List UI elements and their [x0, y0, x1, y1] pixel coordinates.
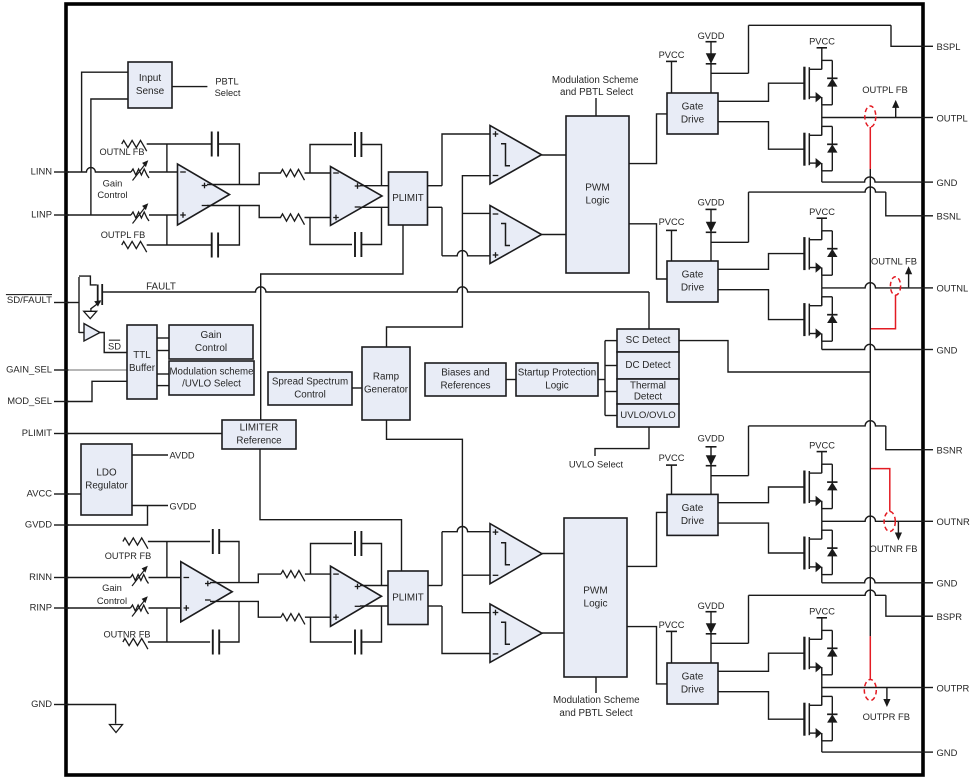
svg-text:RINN: RINN — [29, 571, 52, 582]
wire OUTNL output node line (hop over sense vertical) — [822, 283, 920, 288]
svg-text:GVDD: GVDD — [698, 434, 725, 444]
wire GAIN_SEL input (grey) — [68, 369, 127, 371]
wire 2nd stage lower feedback (R) — [311, 617, 353, 642]
svg-text:Control: Control — [294, 389, 326, 400]
wire OUTPL FB feedback line — [147, 244, 212, 246]
wire PWM output to gate drive (OUTPL) — [629, 114, 667, 164]
capacitor feedback top (R) — [212, 529, 214, 554]
wire ramp stub comparator3 minus — [462, 574, 490, 576]
svg-text:PVCC: PVCC — [659, 453, 685, 463]
wire opamp upper output to 2nd stage — [207, 173, 281, 185]
wire PWM output to gate drive (OUTPR) — [627, 627, 667, 684]
svg-text:DC Detect: DC Detect — [625, 360, 670, 371]
wire high-side source to output node (OUTPR) — [821, 667, 823, 687]
svg-text:GVDD: GVDD — [25, 519, 52, 530]
svg-text:and PBTL Select: and PBTL Select — [559, 708, 632, 719]
resistor OUTNR FB — [123, 638, 148, 649]
wire PWM output to gate drive (OUTNR) — [627, 512, 667, 566]
svg-text:OUTPR FB: OUTPR FB — [863, 711, 910, 722]
wire 2nd opamp outputs to PLIMIT — [360, 185, 389, 187]
block Biases and References — [425, 363, 506, 396]
diode GVDD bootstrap (OUTNL) — [706, 222, 717, 233]
wire RINP to opamp — [149, 607, 182, 609]
svg-text:BSNR: BSNR — [937, 445, 963, 456]
svg-text:Gate: Gate — [682, 102, 704, 113]
wire resistor to 2nd opamp plus (R) — [305, 616, 331, 618]
wire bootstrap to BSPR — [711, 642, 749, 644]
wire PWM bottom stub — [595, 677, 597, 693]
svg-text:Drive: Drive — [681, 516, 705, 527]
svg-text:SC Detect: SC Detect — [626, 335, 671, 346]
svg-text:GVDD: GVDD — [698, 601, 725, 611]
resistor 2nd stage upper input (L) — [281, 169, 305, 180]
svg-text:Buffer: Buffer — [129, 363, 156, 374]
svg-text:OUTPL FB: OUTPL FB — [862, 84, 908, 95]
wire gate drive to low-side gate (OUTPR) — [718, 692, 805, 720]
svg-text:MOD_SEL: MOD_SEL — [7, 395, 52, 406]
svg-text:GND: GND — [31, 698, 52, 709]
pin OUTPL (right) — [920, 117, 933, 119]
wire SD vertical to inverter input — [79, 332, 85, 334]
svg-text:TTL: TTL — [133, 350, 151, 361]
wire RINN to opamp — [149, 577, 182, 579]
svg-text:Logic: Logic — [545, 380, 569, 391]
svg-text:Drive: Drive — [681, 115, 705, 126]
wire 2nd stage upper feedback — [310, 145, 352, 174]
wire gate drive to high-side gate (OUTPL) — [718, 83, 805, 101]
svg-text:Logic: Logic — [586, 196, 610, 207]
svg-text:Sense: Sense — [136, 86, 165, 97]
wire 2nd stage upper feedback (R) — [311, 544, 353, 575]
wire resistor to 2nd opamp minus (R) — [305, 573, 331, 575]
power PVCC stub gate drive (OUTPL) — [666, 60, 677, 62]
op-amp second stage (right channel) — [331, 566, 382, 626]
wire bootstrap to BSPL — [711, 72, 749, 74]
wire Startup Protection to detect blocks bracket — [598, 379, 605, 381]
op-amp first stage (left channel) — [178, 164, 230, 225]
wire cap to opamp lower output (R) — [219, 601, 239, 642]
wire output node to low-side drain (OUTNR) — [821, 521, 823, 539]
wire AVDD output stub — [132, 454, 168, 456]
capacitor 2nd stage feedback top (R) — [354, 531, 356, 556]
wire PWM output to gate drive (OUTNL) — [629, 224, 667, 279]
wire SD/FAULT vertical — [78, 277, 80, 333]
svg-text:Modulation Scheme: Modulation Scheme — [553, 695, 640, 706]
block Gate Drive (OUTNR) — [667, 494, 718, 535]
pin OUTNR (right) — [920, 520, 933, 522]
svg-text:Modulation Scheme: Modulation Scheme — [552, 75, 639, 86]
transistor high-side MOSFET (OUTPR) — [803, 637, 805, 670]
capacitor 2nd stage feedback bottom (L) — [354, 232, 356, 257]
svg-text:Control: Control — [195, 343, 227, 354]
capacitor feedback top-left — [211, 132, 213, 157]
block DC Detect — [617, 352, 679, 379]
wire LINN to opamp — [149, 171, 178, 173]
block PWM Logic (top) — [566, 116, 629, 273]
svg-text:Ramp: Ramp — [373, 372, 400, 383]
op-amp second stage (left channel) — [331, 167, 383, 226]
wire cap to opamp lower output — [218, 206, 239, 246]
wire cap to PLIMIT lower input (R) — [361, 606, 381, 642]
transistor high-side MOSFET (OUTPL) — [803, 67, 805, 100]
wire LINN input (hop over LINP sense tap) — [68, 168, 131, 173]
svg-text:Detect: Detect — [634, 392, 663, 403]
capacitor feedback bottom (R) — [212, 630, 214, 655]
svg-text:LINP: LINP — [31, 209, 52, 220]
svg-text:Gain: Gain — [102, 582, 122, 593]
capacitor feedback bottom-left — [211, 233, 213, 258]
power GVDD (OUTPL) — [706, 41, 717, 43]
wire RINN input — [68, 577, 131, 579]
comparator 4 (bottom) — [490, 604, 542, 662]
block SC Detect — [617, 329, 679, 352]
svg-text:PLIMIT: PLIMIT — [392, 592, 424, 603]
svg-text:OUTNL FB: OUTNL FB — [99, 147, 144, 157]
power PVCC stub gate drive (OUTNL) — [666, 229, 677, 231]
wire OUTNR FB feedback line — [148, 641, 210, 643]
resistor 2nd stage lower input (L) — [281, 214, 305, 225]
wire LINP to opamp — [149, 214, 178, 216]
wire red sense OUTPL — [869, 127, 871, 169]
wire PLIMIT bottom lower output — [428, 605, 442, 607]
wire opamp lower output to 2nd stage (R) — [210, 601, 281, 617]
wire 2nd stage lower feedback — [310, 218, 352, 245]
wire Biases to Startup Protection — [506, 379, 516, 381]
wire resistor to 2nd opamp minus — [305, 172, 331, 174]
block LDO Regulator — [81, 444, 132, 515]
wire red sense OUTPR — [869, 636, 871, 679]
wire to comparator4 minus — [442, 606, 490, 654]
svg-text:References: References — [440, 380, 490, 391]
pin MOD_SEL (left) — [54, 401, 69, 403]
block TTL Buffer — [127, 325, 157, 399]
svg-text:SD: SD — [108, 341, 121, 352]
svg-text:Select: Select — [215, 88, 241, 98]
wire output node to low-side drain (OUTNL) — [821, 288, 823, 306]
svg-text:Modulation scheme: Modulation scheme — [169, 366, 253, 377]
svg-text:Input: Input — [139, 73, 161, 84]
wire FAULT line (hops at limiter vertical and ramp vertical) — [110, 287, 649, 292]
wire PBTL Select stub — [172, 86, 207, 88]
pin GVDD (left) — [54, 524, 69, 526]
variable resistor gain LINP — [131, 212, 149, 221]
svg-text:Control: Control — [97, 189, 127, 200]
svg-text:OUTPL FB: OUTPL FB — [101, 230, 146, 240]
wire opamp lower output to 2nd stage — [207, 206, 281, 218]
block Gate Drive (OUTNL) — [667, 261, 718, 302]
svg-text:AVCC: AVCC — [27, 488, 53, 499]
svg-text:PWM: PWM — [585, 183, 609, 194]
wire cap to PLIMIT input line — [361, 145, 381, 186]
svg-text:LINN: LINN — [31, 166, 52, 177]
pin BSNL (right) — [920, 215, 933, 217]
svg-text:UVLO Select: UVLO Select — [569, 459, 624, 470]
pin BSNR (right) — [920, 449, 933, 451]
arrow OUTNR FB (down) — [897, 522, 899, 534]
wire UVLO/OVLO to UVLO Select — [595, 427, 649, 456]
power GVDD (OUTNL) — [706, 208, 717, 210]
svg-text:BSPL: BSPL — [937, 41, 961, 52]
wire to comparator3 plus (hop over ramp) — [441, 532, 443, 586]
power PVCC stub gate drive (OUTNR) — [666, 464, 677, 466]
transistor FAULT open-drain — [79, 276, 97, 285]
wire ramp stub comparator2 minus — [462, 212, 490, 214]
wire GVDD pin to GVDD stub — [68, 506, 148, 526]
wire gate drive to high-side gate (OUTPR) — [718, 653, 805, 671]
pin OUTNL (right) — [920, 287, 933, 289]
resistor 2nd stage upper input (R) — [281, 571, 305, 582]
comparator 1 (top) — [490, 126, 542, 185]
wire GND line (OUTNL) — [822, 344, 920, 349]
wire comparator3 output to PWM logic — [542, 553, 564, 555]
wire PLIMIT pin to LIMITER Reference — [68, 433, 222, 435]
svg-text:Biases and: Biases and — [441, 368, 489, 379]
wire gate drive to low-side gate (OUTPL) — [718, 122, 805, 150]
svg-text:Logic: Logic — [584, 599, 608, 610]
wire GND line (OUTNR) — [822, 578, 920, 583]
svg-text:Generator: Generator — [364, 384, 409, 395]
current sense ellipse OUTPL — [865, 106, 876, 127]
wire SD/FAULT pin input — [68, 302, 79, 304]
svg-text:LDO: LDO — [96, 468, 117, 479]
svg-text:AVDD: AVDD — [170, 451, 195, 461]
wire TTL buffer to Modulation scheme stubs — [157, 373, 169, 375]
wire comparator2 output to PWM logic — [542, 234, 567, 236]
pin RINP (left) — [54, 607, 69, 609]
wire TTL buffer to Gain Control stubs — [157, 337, 169, 339]
pin BSPL (right) — [920, 45, 933, 47]
wire LINP input — [68, 214, 131, 216]
pin GND (right) — [920, 349, 933, 351]
pin GND (right) — [920, 751, 933, 753]
wire red sense OUTNL — [870, 295, 895, 329]
wire opamp upper output to 2nd stage (R) — [210, 574, 281, 583]
wire ramp generator bottom to lower comparators — [387, 420, 491, 613]
wire cap to PLIMIT lower input line — [361, 207, 381, 244]
transistor high-side MOSFET (OUTNR) — [803, 471, 805, 504]
wire cap to PLIMIT input (R) — [361, 544, 381, 586]
svg-text:OUTNR FB: OUTNR FB — [104, 630, 151, 640]
svg-text:OUTNR: OUTNR — [937, 516, 970, 527]
block LIMITER Reference — [222, 420, 296, 449]
power PVCC half-bridge (OUTPL) — [817, 47, 827, 49]
wire high-side source to output node (OUTNL) — [821, 268, 823, 288]
svg-text:Drive: Drive — [681, 685, 705, 696]
wire high-side source to output node (OUTPL) — [821, 97, 823, 117]
wire OUTNR output node line (hop over sense vertical) — [822, 516, 920, 521]
wire SD inverter to TTL buffer — [100, 333, 127, 353]
capacitor 2nd stage feedback top (L) — [354, 132, 356, 157]
transistor low-side MOSFET (OUTPR) — [803, 703, 805, 736]
wire output node to low-side drain (OUTPL) — [821, 118, 823, 136]
transistor low-side MOSFET (OUTNR) — [803, 537, 805, 570]
wire red sense OUTNR — [870, 469, 890, 512]
block PLIMIT (bottom) — [388, 571, 428, 625]
arrow OUTNL FB (up) — [908, 273, 910, 287]
resistor 2nd stage lower input (R) — [281, 614, 305, 625]
wire gate drive to high-side gate (OUTNL) — [718, 254, 805, 270]
svg-text:GVDD: GVDD — [170, 502, 197, 512]
wire bootstrap to BSNR — [711, 475, 749, 477]
pin PLIMIT (left) — [54, 433, 69, 435]
power PVCC half-bridge (OUTNR) — [817, 451, 827, 453]
svg-text:OUTNR FB: OUTNR FB — [870, 543, 918, 554]
wire feedback junction to LINN line — [166, 144, 168, 172]
wire current sense vertical (OUTPL to OUTPR) — [869, 169, 871, 636]
wire Input Sense to LINP tap — [91, 99, 128, 215]
pin AVCC (left) — [54, 493, 69, 495]
variable resistor gain RINP — [131, 605, 149, 614]
pin RINN (left) — [54, 577, 69, 579]
svg-text:Reference: Reference — [236, 435, 282, 446]
wire OUTNL FB feedback line — [147, 143, 212, 145]
block Modulation scheme / UVLO Select — [169, 361, 254, 395]
pin LINN (left) — [54, 171, 69, 173]
wire gate drive to low-side gate (OUTNR) — [718, 523, 805, 553]
svg-text:PVCC: PVCC — [809, 37, 835, 47]
wire low-side source to GND (OUTNL) — [821, 334, 823, 350]
pin OUTPR (right) — [920, 687, 933, 689]
svg-text:BSNL: BSNL — [937, 211, 962, 222]
comparator 3 (bottom) — [490, 524, 542, 584]
svg-text:PVCC: PVCC — [809, 207, 835, 217]
pin BSPR (right) — [920, 615, 933, 617]
transistor high-side MOSFET (OUTNL) — [803, 237, 805, 270]
svg-text:GND: GND — [937, 578, 958, 589]
wire OUTPR FB feedback line — [148, 541, 210, 543]
svg-text:PVCC: PVCC — [659, 50, 685, 60]
wire 2nd opamp outputs to PLIMIT (bottom) — [360, 585, 388, 587]
transistor low-side MOSFET (OUTPL) — [803, 133, 805, 166]
svg-text:GVDD: GVDD — [698, 31, 725, 41]
svg-text:Spread Spectrum: Spread Spectrum — [272, 377, 348, 388]
svg-text:and PBTL Select: and PBTL Select — [560, 87, 633, 98]
wire output node to low-side drain (OUTPR) — [821, 688, 823, 706]
resistor OUTNL FB — [122, 140, 147, 151]
transistor low-side MOSFET (OUTNL) — [803, 303, 805, 336]
svg-text:OUTNL: OUTNL — [937, 283, 969, 294]
svg-text:OUTPL: OUTPL — [937, 112, 968, 123]
svg-text:PVCC: PVCC — [659, 217, 685, 227]
wire RINP input — [68, 607, 131, 609]
power GVDD (OUTPR) — [706, 611, 717, 613]
block UVLO/OVLO — [617, 404, 679, 427]
wire PLIMIT box down to LIMITER Reference — [261, 225, 403, 420]
svg-text:PWM: PWM — [583, 586, 607, 597]
wire low-side source to GND (OUTPR) — [821, 733, 823, 752]
svg-text:BSPR: BSPR — [937, 611, 963, 622]
wire FAULT down to SC Detect — [648, 292, 650, 329]
wire ramp vertical to comparators (top) — [387, 176, 491, 347]
svg-text:PLIMIT: PLIMIT — [392, 193, 424, 204]
wire cap to opamp output — [218, 144, 239, 185]
svg-text:OUTPR: OUTPR — [937, 682, 970, 693]
capacitor 2nd stage feedback bottom (R) — [354, 630, 356, 655]
wire SC Detect to current sense vertical — [679, 341, 870, 372]
wire MOD_SEL input — [68, 381, 127, 401]
svg-text:UVLO/OVLO: UVLO/OVLO — [620, 410, 675, 421]
wire OUTPL output node line — [822, 117, 920, 119]
buffer SD inverter — [84, 324, 100, 341]
op-amp first stage (right channel) — [181, 562, 232, 622]
wire resistor to 2nd opamp plus — [305, 217, 331, 219]
svg-text:Gain: Gain — [200, 330, 221, 341]
pin SD/FAULT (left) — [54, 302, 69, 304]
wire to comparator2 plus input (hop over ramp) — [441, 207, 443, 256]
diode GVDD bootstrap (OUTPL) — [706, 53, 717, 64]
wire PLIMIT bottom upper output — [428, 585, 442, 587]
wire AVCC pin to LDO — [68, 493, 81, 495]
block Gate Drive (OUTPR) — [667, 663, 718, 704]
svg-text:PVCC: PVCC — [809, 440, 835, 450]
current sense ellipse OUTPR — [864, 680, 876, 701]
wire bootstrap to BSNL — [711, 241, 749, 243]
svg-text:PBTL: PBTL — [215, 76, 238, 86]
resistor OUTPR FB — [123, 538, 148, 549]
block Ramp Generator — [362, 347, 410, 420]
wire to comparator1 plus input — [442, 134, 490, 186]
wire feedback junction to RINP line — [166, 608, 168, 642]
svg-text:GND: GND — [937, 177, 958, 188]
wire comparator1 output to PWM logic — [542, 154, 567, 156]
block Spread Spectrum Control — [268, 372, 352, 405]
wire gate drive to low-side gate (OUTNL) — [718, 290, 805, 320]
pin LINP (left) — [54, 214, 69, 216]
block Thermal Detect — [617, 379, 679, 404]
svg-text:GND: GND — [937, 344, 958, 355]
pin GND (right) — [920, 181, 933, 183]
svg-text:OUTPR FB: OUTPR FB — [105, 551, 151, 561]
svg-text:LIMITER: LIMITER — [240, 423, 279, 434]
wire feedback junction to LINP line — [166, 215, 168, 245]
resistor OUTPL FB — [122, 241, 147, 252]
wire GND line (OUTPL) — [822, 177, 920, 182]
wire comparator4 output to PWM logic — [542, 632, 564, 634]
power PVCC half-bridge (OUTPR) — [817, 617, 827, 619]
wire OUTPR output node line — [822, 687, 920, 689]
variable resistor gain RINN — [131, 575, 149, 584]
svg-text:RINP: RINP — [30, 602, 52, 613]
svg-text:Gate: Gate — [682, 503, 704, 514]
wire cap to opamp output (R) — [219, 542, 239, 583]
wire low-side source to GND (OUTPL) — [821, 163, 823, 182]
svg-text:FAULT: FAULT — [146, 282, 176, 293]
svg-text:SD/FAULT: SD/FAULT — [7, 295, 52, 306]
arrow OUTPL FB (up) — [895, 107, 897, 117]
block Startup Protection Logic — [516, 363, 598, 396]
wire GND pin to ground symbol — [68, 705, 116, 724]
svg-text:PVCC: PVCC — [809, 607, 835, 617]
wire high-side source to output node (OUTNR) — [821, 501, 823, 521]
block Input Sense — [128, 62, 172, 108]
current sense ellipse OUTNR — [884, 512, 895, 532]
block Gate Drive (OUTPL) — [667, 93, 718, 134]
power GVDD (OUTNR) — [706, 446, 717, 448]
pin GAIN_SEL (left) — [54, 369, 69, 371]
pin GND (left) — [54, 704, 69, 706]
svg-text:PLIMIT: PLIMIT — [22, 427, 52, 438]
block PLIMIT (top) — [389, 172, 428, 225]
block PWM Logic (bottom) — [564, 518, 627, 677]
wire LIMITER Reference to bottom PLIMIT — [260, 449, 402, 571]
wire Input Sense to LINN tap — [82, 72, 128, 172]
ground symbol (arrow) — [110, 725, 123, 733]
comparator 2 (top) — [490, 206, 542, 264]
current sense ellipse OUTNL — [890, 277, 900, 295]
wire feedback junction to RINN line — [166, 542, 168, 578]
variable resistor gain LINN — [131, 169, 149, 178]
svg-text:GAIN_SEL: GAIN_SEL — [6, 364, 52, 375]
